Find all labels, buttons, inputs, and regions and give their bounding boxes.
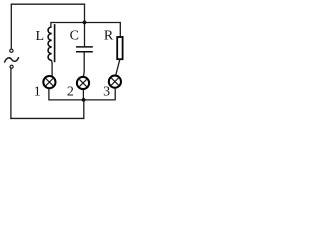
lamp 3 (circle with X): [109, 76, 121, 88]
wire: from winding bottom down to lamp 1: [50, 60, 53, 76]
wire: lamp 1 bottom stub to bottom bus: [48, 89, 50, 101]
svg-text:3: 3: [103, 84, 110, 99]
wire: from capacitor bottom plate down to lamp 2: [82, 52, 85, 77]
junction dot at bottom bus and lamp 2 branch: [82, 98, 86, 102]
wire: return drop from bottom bus junction: [83, 100, 85, 119]
AC source bottom terminal: [10, 65, 13, 68]
svg-text:L: L: [36, 29, 45, 44]
inductor L1 winding (5 left-bulging arcs): [48, 27, 52, 61]
wire: lamp 2 bottom stub: [82, 90, 84, 100]
wire: lamp 3 bottom stub: [114, 88, 116, 100]
resistor R1 box: [117, 37, 122, 59]
wire: bottom bus connecting lamp bottoms: [49, 99, 115, 101]
wire: top bus from inductor corner to resistor corner: [51, 22, 120, 24]
AC source tilde symbol: [5, 58, 19, 62]
capacitor C1 top plate: [76, 46, 93, 48]
svg-text:R: R: [104, 28, 114, 43]
AC source top terminal: [10, 49, 13, 52]
svg-text:2: 2: [67, 85, 74, 100]
inductor iron core bar: [54, 24, 56, 62]
wire: top horizontal from left corner to C-branch drop: [11, 3, 85, 5]
wire: left vertical from source bottom terminal down to bottom corner: [10, 69, 12, 119]
wire: C-branch vertical drop from top wire through bus to capacitor: [84, 4, 86, 47]
wire: stub from bus down to inductor winding: [50, 22, 52, 27]
wire: from resistor bottom down to lamp 3: [116, 59, 120, 75]
svg-text:1: 1: [34, 85, 41, 100]
wire: bottom return horizontal to left side: [10, 117, 84, 119]
capacitor C1 bottom plate: [76, 51, 93, 53]
lamp 1 (circle with X): [43, 76, 55, 88]
lamp 2 (circle with X): [77, 77, 89, 89]
junction dot at bus and C branch: [83, 21, 87, 25]
wire: left vertical from top corner down to source top terminal: [10, 4, 12, 49]
wire: from bus corner down to resistor top: [119, 22, 121, 37]
svg-text:C: C: [70, 28, 79, 43]
